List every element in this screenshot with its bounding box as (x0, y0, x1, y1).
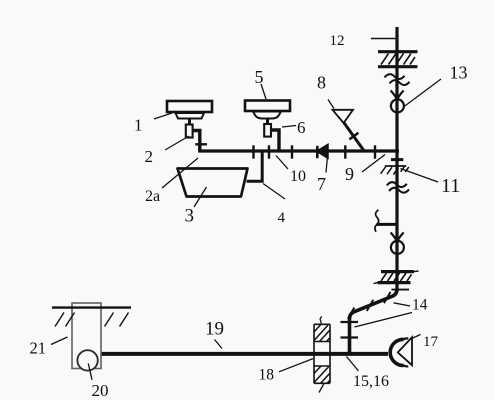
leader to label 20 (88, 364, 92, 380)
leader to label 10 (276, 156, 288, 170)
leader to label 15,16 (347, 357, 359, 372)
leader to label 8 (328, 100, 334, 109)
supply pipe 19 (95, 352, 388, 356)
ground line at well 21 (52, 306, 131, 308)
leader to label 3 (194, 187, 207, 207)
svg-text:8: 8 (317, 73, 326, 93)
leader to label 21 (51, 337, 68, 345)
svg-text:20: 20 (92, 381, 109, 400)
leader to label 2a (162, 158, 198, 188)
joint tick on drop pipe 1 (195, 143, 207, 145)
leader to label 1 (154, 113, 172, 119)
sink top 5 (245, 101, 290, 119)
svg-text:10: 10 (290, 168, 306, 185)
svg-text:5: 5 (255, 67, 264, 87)
flow arrow upper (391, 91, 404, 100)
svg-text:2a: 2a (145, 188, 160, 205)
leader line 12 (371, 38, 396, 40)
flow arrow lower (391, 233, 404, 242)
wall sleeve 18 (314, 317, 330, 393)
joint tick e on main pipe (374, 145, 376, 158)
basin 3 (178, 169, 248, 197)
stem of tap 2 (188, 119, 191, 125)
stem of tap 6 (266, 119, 269, 125)
joint tick on diagonal b (367, 300, 374, 311)
ground hatch right (105, 313, 129, 327)
joint tick on diagonal c (348, 308, 355, 319)
riser pipe 12 (395, 27, 398, 291)
wall sleeve top (hatched) (378, 52, 418, 67)
leader b to label 14 (355, 313, 413, 328)
pipe elbow from valve 2 (193, 131, 200, 152)
leader to label 19 (215, 340, 223, 349)
leader to label 5 (261, 84, 266, 99)
joint tick on funnel branch (349, 133, 358, 140)
branch tee with break (375, 210, 397, 232)
svg-text:1: 1 (134, 116, 143, 135)
leader to label 6 (282, 126, 296, 128)
svg-text:11: 11 (441, 175, 460, 197)
svg-text:3: 3 (185, 206, 195, 227)
joint tick on diagonal a (384, 292, 391, 303)
tap valve 2 (186, 125, 193, 138)
pipe break squiggle middle (387, 181, 409, 194)
joint tick d on main pipe (344, 145, 346, 158)
svg-text:19: 19 (205, 319, 224, 340)
svg-text:21: 21 (30, 339, 47, 358)
meter 13 (391, 99, 404, 112)
leader to label 2 (165, 136, 189, 150)
svg-text:12: 12 (330, 33, 345, 49)
leader a to label 14 (394, 303, 411, 306)
joint tick a on main pipe (252, 145, 254, 158)
drain branch from funnel 8 (344, 123, 364, 151)
svg-text:17: 17 (423, 334, 439, 350)
leader to label 18 (279, 359, 313, 372)
tap valve on sink 5 (264, 124, 271, 137)
leader to label 11 (401, 169, 439, 183)
ground hatch left (55, 313, 75, 327)
funnel 8 (333, 110, 354, 123)
drain pipe 4 (247, 152, 263, 181)
svg-text:14: 14 (412, 297, 428, 314)
well 21 (72, 303, 101, 369)
pump 20 (77, 350, 97, 370)
joint tick b on main pipe (268, 145, 270, 158)
svg-text:18: 18 (259, 367, 275, 384)
leader to label 9 (362, 155, 385, 173)
joint tick below sleeve (392, 289, 410, 291)
wall marker 11 (381, 166, 409, 175)
leader to label 13 (405, 79, 441, 106)
svg-text:7: 7 (317, 174, 326, 194)
thick joint below junction (391, 158, 403, 161)
main horizontal pipe (198, 149, 399, 152)
leader to label 7 (326, 159, 327, 173)
joint tick c on main pipe (291, 145, 293, 158)
bend 14 pipe (elbow and diagonal) (350, 289, 398, 352)
svg-text:15,16: 15,16 (353, 373, 389, 390)
leader to label 17 (410, 335, 421, 340)
check valve 7 (317, 144, 329, 158)
pipe elbow 6 (271, 130, 279, 152)
svg-text:9: 9 (345, 164, 354, 184)
wall sleeve lower (hatched) (374, 271, 419, 284)
meter lower (391, 241, 404, 254)
spray head 17 cone (398, 337, 412, 365)
joint tick on down leg a (341, 321, 359, 323)
sink top 1 (167, 101, 212, 119)
leader to label 4 (263, 184, 285, 200)
pipe break squiggle upper (385, 74, 410, 86)
joint tick on down leg b (341, 336, 359, 338)
spray head 17 arc (390, 339, 403, 365)
svg-text:13: 13 (450, 63, 468, 83)
svg-text:2: 2 (145, 147, 154, 166)
svg-text:6: 6 (297, 118, 306, 137)
svg-text:4: 4 (278, 210, 286, 226)
